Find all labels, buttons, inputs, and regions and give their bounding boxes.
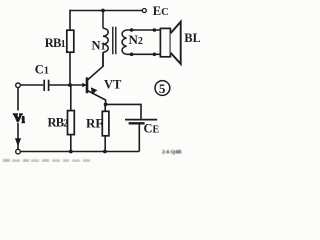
wire bottom rail — [20, 151, 139, 153]
arrow input direction — [15, 138, 21, 146]
resistor RF — [102, 111, 109, 136]
svg-text:RB2: RB2 — [48, 115, 69, 129]
svg-text:VT: VT — [104, 78, 122, 92]
svg-text:RB1: RB1 — [45, 36, 66, 50]
node dot N2 top left — [130, 28, 134, 32]
wire RF bottom lead — [104, 136, 106, 152]
wire RB1 top lead — [69, 10, 71, 31]
terminal EC open circle — [142, 9, 146, 13]
node dot N2 top right — [153, 28, 157, 32]
node dot RF bottom — [103, 150, 107, 154]
capacitor C1 — [44, 80, 48, 91]
svg-text:N1: N1 — [92, 39, 106, 53]
node dot RB2 bottom — [69, 150, 73, 154]
transformer core — [113, 27, 116, 54]
inductor N1 primary winding — [103, 11, 108, 67]
transistor VT emitter arrow — [91, 87, 98, 94]
faint caption fragments — [3, 150, 182, 163]
wire N2 bottom to speaker — [127, 53, 161, 55]
resistor RB1 — [67, 30, 74, 52]
terminal input top circle — [16, 83, 21, 88]
wire RF top lead — [104, 104, 106, 111]
wire base rail from C1 to transistor — [21, 84, 43, 86]
capacitor CE bottom plate — [129, 122, 145, 124]
wire C1 to base — [50, 84, 87, 86]
node junction dot base / RB1 / RB2 — [68, 83, 72, 87]
transistor VT emitter lead — [88, 91, 106, 105]
svg-text:C1: C1 — [35, 63, 49, 77]
wire CE bottom lead — [138, 124, 140, 152]
wire RB1 bottom lead — [69, 52, 71, 85]
inductor N2 secondary winding — [122, 30, 127, 54]
node dot N2 bottom right — [153, 53, 157, 57]
resistor RB2 — [68, 111, 75, 135]
wire RB2 top lead — [70, 85, 72, 111]
terminal input bottom circle — [16, 149, 21, 154]
svg-text:BL: BL — [184, 31, 200, 45]
svg-text:2-6 Q4B: 2-6 Q4B — [162, 150, 182, 156]
speaker BL horn — [171, 22, 181, 64]
wire input vertical — [17, 88, 19, 150]
node blob at transistor base — [82, 83, 86, 88]
transistor VT base bar — [86, 77, 89, 93]
speaker BL body — [160, 28, 170, 56]
circled number 5 — [155, 81, 170, 96]
node junction dot top rail to N1 — [101, 9, 105, 13]
wire top horizontal rail — [70, 10, 143, 12]
wire N2 top to speaker — [127, 29, 161, 31]
svg-text:5: 5 — [159, 81, 166, 96]
node dot emitter junction — [104, 103, 108, 107]
node dot N2 bottom left — [130, 53, 134, 57]
svg-text:RF: RF — [86, 116, 103, 131]
wire emitter node to CE — [106, 104, 141, 118]
transistor VT collector lead — [88, 53, 104, 81]
capacitor CE top plate — [125, 119, 157, 121]
wire RB2 bottom lead — [70, 135, 72, 152]
svg-text:CE: CE — [144, 122, 160, 136]
svg-text:EC: EC — [153, 4, 169, 18]
